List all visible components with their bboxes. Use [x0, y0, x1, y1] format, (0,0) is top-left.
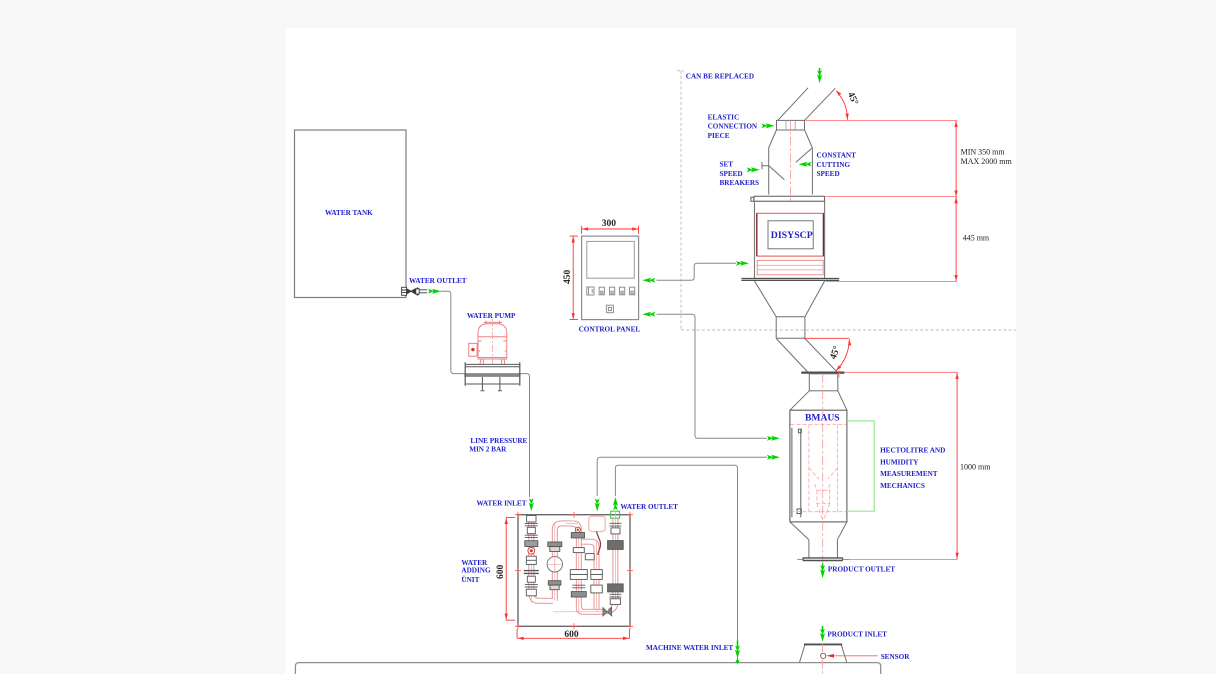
svg-text:600: 600 [496, 565, 506, 580]
upper body with breakers [762, 130, 812, 195]
svg-text:ELASTIC: ELASTIC [708, 113, 740, 121]
svg-text:WATER OUTLET: WATER OUTLET [620, 503, 678, 511]
buttons [587, 287, 635, 313]
sensor circle [821, 653, 826, 658]
main box [755, 201, 825, 278]
bmaus bottom flange [803, 558, 843, 561]
dim 600 left [506, 517, 515, 620]
lower red rows [757, 260, 823, 275]
dim 600 bottom [517, 629, 629, 638]
control panel body [582, 236, 639, 320]
display window [768, 221, 813, 249]
angled inlet pipe 45deg [778, 88, 835, 121]
wire adding-unit to bmaus lower [597, 457, 767, 496]
bmaus neck [809, 374, 838, 391]
red flange ticks [797, 559, 849, 561]
svg-text:CONTROL PANEL: CONTROL PANEL [579, 326, 641, 334]
svg-text:HECTOLITRE AND: HECTOLITRE AND [880, 446, 945, 454]
junction box [469, 343, 477, 356]
white drawing canvas [286, 28, 1016, 674]
green arrow set speed [747, 167, 760, 172]
45deg arc dimension top [836, 91, 847, 120]
svg-text:SPEED: SPEED [817, 170, 840, 178]
bottom dashed edge [681, 329, 1016, 331]
dashed CAN-BE-REPLACED boundary [677, 71, 1016, 330]
pipe P4 walls [613, 518, 618, 603]
svg-text:WATER OUTLET: WATER OUTLET [409, 277, 467, 285]
centerline reds [531, 511, 615, 612]
green arrow outlet up [613, 497, 618, 510]
svg-text:WATER TANK: WATER TANK [325, 209, 373, 217]
branch P3 to P3b [581, 539, 591, 544]
wire to bmaus upper [657, 314, 768, 438]
red extension line at elastic piece level [806, 119, 957, 121]
bmaus centerline [822, 374, 824, 564]
bmaus top flange [801, 372, 844, 374]
pipe P2 walls [552, 530, 557, 601]
green arrow water inlet [529, 498, 534, 511]
45deg arc dimension bottom [804, 337, 850, 339]
frame corner crosses [515, 512, 633, 630]
P4 fittings [603, 523, 623, 616]
svg-text:MAX 2000 mm: MAX 2000 mm [961, 157, 1013, 166]
bmaus body [790, 410, 847, 522]
hose from tank [597, 532, 601, 556]
pipe P1 walls [529, 515, 534, 593]
support table lines [741, 279, 839, 281]
svg-text:ADDING: ADDING [461, 567, 491, 575]
wire adding-unit outlet to machine [615, 465, 737, 661]
svg-text:CUTTING: CUTTING [817, 161, 851, 169]
discharge hopper [755, 281, 825, 317]
svg-text:CONNECTION: CONNECTION [708, 123, 758, 131]
left dashed edge [677, 71, 684, 330]
screen [587, 241, 635, 278]
svg-text:450: 450 [563, 270, 573, 285]
bmaus door [792, 428, 801, 517]
svg-text:MIN 2 BAR: MIN 2 BAR [469, 445, 507, 453]
svg-text:600: 600 [564, 630, 579, 640]
bmaus bottom shoulders [790, 522, 847, 540]
piping inside adding unit [529, 511, 618, 614]
svg-text:SET: SET [720, 161, 734, 169]
45deg chute [776, 339, 837, 373]
svg-text:CAN BE REPLACED: CAN BE REPLACED [686, 72, 754, 80]
P3 fittings [570, 533, 594, 598]
svg-text:BREAKERS: BREAKERS [720, 179, 760, 187]
machine body outline [295, 663, 880, 674]
svg-text:WATER INLET: WATER INLET [477, 499, 527, 507]
wire tank to water adding unit [441, 291, 530, 497]
green arrow constant cutting [799, 162, 812, 167]
svg-text:PIECE: PIECE [708, 132, 730, 140]
wire to disyscp [657, 263, 737, 280]
green arrow machine water inlet [737, 640, 739, 647]
svg-text:445 mm: 445 mm [963, 233, 990, 242]
svg-text:WATER PUMP: WATER PUMP [467, 312, 516, 320]
pump top lug [484, 321, 503, 325]
green arrow product inlet [822, 626, 824, 631]
P1 red valve ring [528, 547, 535, 554]
sensor pointer [826, 654, 834, 658]
green measurement bracket [847, 421, 874, 511]
svg-text:SENSOR: SENSOR [881, 653, 911, 661]
svg-text:MIN 350 mm: MIN 350 mm [961, 147, 1006, 156]
red extension at bmaus bottom [850, 559, 957, 561]
tank outlet fitting [402, 287, 428, 295]
dim 450 left [570, 236, 579, 320]
svg-text:MEASUREMENT: MEASUREMENT [880, 470, 938, 478]
breaker tick [762, 162, 769, 169]
svg-text:CONSTANT: CONSTANT [817, 152, 857, 160]
svg-text:HUMIDITY: HUMIDITY [880, 458, 919, 466]
breaker diagonals [769, 148, 812, 180]
hopper neck [776, 317, 805, 339]
svg-text:PRODUCT OUTLET: PRODUCT OUTLET [828, 566, 895, 574]
green arrow product outlet [822, 564, 824, 570]
adding unit frame [518, 515, 630, 627]
pump centerline [491, 319, 493, 364]
svg-text:DISYSCP: DISYSCP [771, 230, 813, 241]
red extension at bmaus top [845, 371, 957, 373]
green arrow to elastic piece [762, 123, 775, 128]
svg-text:MECHANICS: MECHANICS [880, 482, 925, 490]
red extension at unit bottom [826, 281, 956, 283]
svg-text:ÜNIT: ÜNIT [461, 575, 479, 584]
bmaus bottom neck [809, 540, 838, 558]
red inner box [757, 213, 824, 256]
P3b fittings [591, 570, 603, 593]
bmaus internal red dashed [791, 425, 847, 519]
pump body [478, 324, 507, 359]
svg-text:MACHINE WATER INLET: MACHINE WATER INLET [646, 644, 733, 652]
pipe P3b walls [594, 546, 599, 609]
dim line 1000mm [956, 372, 958, 559]
dim 300 top [582, 226, 639, 234]
unit centerline [789, 121, 791, 281]
svg-text:1000 mm: 1000 mm [960, 463, 991, 472]
red extension at flange level [826, 196, 957, 198]
top flange [751, 196, 825, 201]
pump legs [480, 359, 505, 364]
pump base [464, 362, 520, 391]
junction box dot [471, 348, 474, 351]
P1 fittings [524, 516, 539, 596]
P2 top red valve dot [575, 527, 580, 532]
P2 fittings [547, 542, 562, 590]
dim line min350 max2000 + 445 [955, 120, 957, 281]
svg-text:PRODUCT INLET: PRODUCT INLET [827, 630, 887, 638]
green arrow at water outlet [428, 289, 441, 294]
green outlet square [611, 511, 620, 518]
bmaus shoulders [790, 391, 847, 410]
svg-text:SPEED: SPEED [720, 170, 743, 178]
green arrow down into top opening [819, 68, 821, 72]
product inlet hopper [799, 645, 846, 663]
green arrow inlet 2 [595, 499, 600, 512]
svg-text:LINE PRESSURE: LINE PRESSURE [470, 437, 527, 445]
svg-text:300: 300 [602, 219, 617, 229]
water tank [295, 130, 407, 298]
elastic connection piece [777, 120, 805, 130]
hopper centerline [822, 627, 824, 674]
small tank symbol [589, 516, 605, 531]
pipe P3 walls [576, 530, 581, 609]
